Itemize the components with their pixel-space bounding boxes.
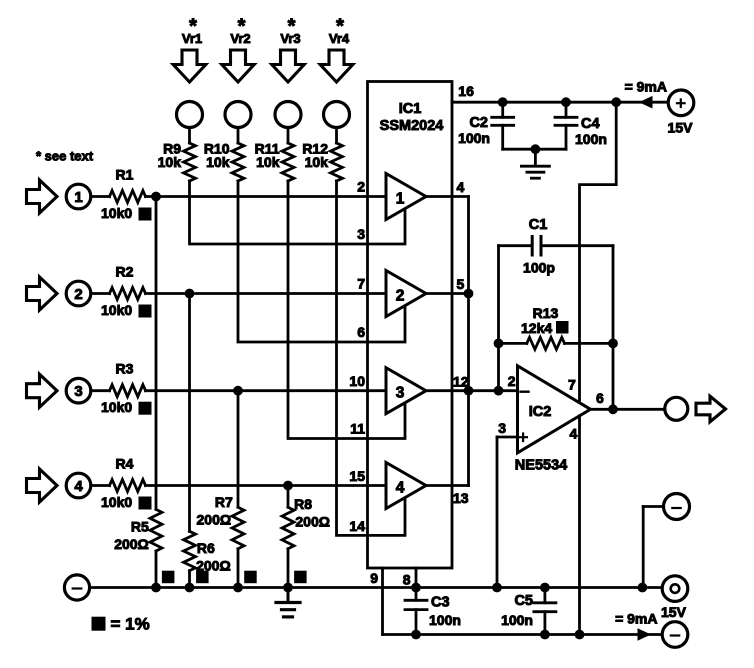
svg-text:3: 3 [74, 383, 82, 400]
svg-text:12k4: 12k4 [521, 320, 552, 336]
svg-text:16: 16 [458, 83, 474, 99]
svg-text:= 1%: = 1% [111, 615, 150, 634]
svg-text:R7: R7 [215, 494, 233, 510]
svg-text:R2: R2 [116, 264, 134, 280]
svg-text:4: 4 [457, 179, 465, 195]
svg-text:200Ω: 200Ω [114, 536, 149, 552]
svg-text:Vr2: Vr2 [230, 31, 250, 46]
svg-text:4: 4 [396, 480, 405, 497]
svg-text:1: 1 [396, 191, 405, 208]
svg-text:* see text: * see text [36, 149, 94, 164]
svg-text:3: 3 [498, 420, 506, 436]
svg-text:Vr1: Vr1 [182, 31, 202, 46]
svg-text:Vr4: Vr4 [329, 31, 350, 46]
svg-text:10k: 10k [305, 154, 329, 170]
svg-text:6: 6 [357, 324, 365, 340]
svg-text:100n: 100n [575, 131, 607, 147]
svg-text:15V: 15V [668, 119, 694, 135]
svg-text:100n: 100n [501, 612, 533, 628]
svg-text:100n: 100n [429, 612, 461, 628]
svg-text:9: 9 [370, 570, 378, 586]
svg-text:R3: R3 [116, 361, 134, 377]
svg-text:10k0: 10k0 [101, 399, 132, 415]
svg-text:15: 15 [349, 468, 365, 484]
svg-text:200Ω: 200Ω [197, 512, 232, 528]
svg-text:= 9mA: = 9mA [615, 610, 657, 626]
svg-text:15V: 15V [661, 604, 687, 620]
svg-text:7: 7 [568, 377, 576, 393]
svg-text:R8: R8 [294, 496, 312, 512]
svg-text:IC1: IC1 [399, 101, 422, 117]
svg-text:C4: C4 [581, 116, 600, 132]
svg-text:6: 6 [596, 390, 604, 406]
svg-text:11: 11 [350, 421, 365, 437]
svg-text:2: 2 [74, 286, 82, 303]
svg-text:C1: C1 [529, 217, 548, 233]
svg-text:R6: R6 [197, 540, 215, 556]
svg-text:10k0: 10k0 [101, 494, 132, 510]
svg-text:= 9mA: = 9mA [625, 79, 667, 95]
svg-text:C2: C2 [469, 115, 488, 131]
svg-text:8: 8 [403, 572, 411, 588]
svg-text:IC2: IC2 [529, 404, 552, 420]
svg-text:4: 4 [74, 478, 83, 495]
svg-text:5: 5 [457, 276, 465, 292]
svg-text:10k: 10k [158, 154, 182, 170]
svg-text:C5: C5 [514, 593, 533, 609]
svg-text:3: 3 [396, 385, 405, 402]
svg-text:2: 2 [396, 288, 405, 305]
svg-text:C3: C3 [431, 595, 450, 611]
svg-text:10k: 10k [256, 154, 280, 170]
svg-text:Vr3: Vr3 [280, 31, 300, 46]
svg-text:2: 2 [357, 179, 365, 195]
svg-text:13: 13 [453, 490, 469, 506]
svg-text:10k0: 10k0 [101, 302, 132, 318]
svg-text:R4: R4 [116, 456, 134, 472]
svg-text:200Ω: 200Ω [295, 514, 330, 530]
svg-text:7: 7 [357, 276, 365, 292]
svg-text:100n: 100n [458, 130, 490, 146]
svg-text:10: 10 [349, 373, 365, 389]
svg-text:R1: R1 [116, 167, 134, 183]
svg-text:R5: R5 [131, 518, 149, 534]
svg-text:2: 2 [508, 373, 516, 389]
svg-text:NE5534: NE5534 [515, 458, 567, 474]
svg-text:4: 4 [570, 425, 578, 441]
svg-text:R13: R13 [533, 305, 559, 321]
svg-text:100p: 100p [523, 260, 555, 276]
svg-text:10k: 10k [206, 154, 230, 170]
svg-text:3: 3 [357, 226, 365, 242]
svg-text:10k0: 10k0 [101, 205, 132, 221]
svg-text:12: 12 [453, 374, 469, 390]
svg-text:14: 14 [349, 518, 365, 534]
svg-text:1: 1 [74, 189, 82, 206]
svg-text:SSM2024: SSM2024 [380, 118, 444, 134]
